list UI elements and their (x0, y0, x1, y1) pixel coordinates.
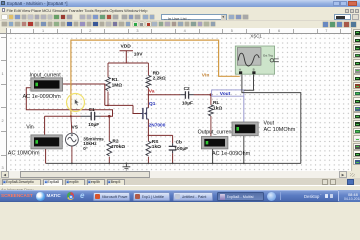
toolbar row 1 (0, 14, 360, 21)
capacitor C1 (45, 107, 101, 128)
resistor RD (146, 63, 166, 95)
svg-text:2.2kΩ: 2.2kΩ (153, 76, 166, 82)
ground (123, 163, 131, 171)
svg-text:VDD: VDD (121, 44, 132, 50)
wire ground rail (46, 162, 301, 164)
multimeter Input_current (23, 72, 63, 100)
wire scope A- ground loop (242, 74, 301, 163)
svg-text:Vin: Vin (26, 125, 34, 131)
taskbar button: powerpoint (93, 192, 130, 201)
svg-text:10µF: 10µF (182, 101, 193, 107)
svg-text:Ext Trig: Ext Trig (263, 53, 273, 57)
horizontal scrollbar (1, 171, 347, 178)
schematic canvas (7, 34, 351, 172)
multimeter Vout (232, 121, 296, 136)
svg-text:C1: C1 (89, 107, 95, 113)
source VS (66, 116, 105, 163)
svg-text:10µF: 10µF (88, 122, 99, 128)
cursor (75, 99, 80, 106)
svg-text:Vout: Vout (264, 121, 275, 127)
resistor RL (208, 94, 222, 137)
svg-text:VS: VS (72, 125, 79, 131)
cursor halo (67, 94, 85, 112)
svg-text:Vin: Vin (202, 72, 210, 78)
transistor Q1 (133, 95, 166, 136)
svg-text:470kΩ: 470kΩ (111, 144, 126, 150)
svg-text:1kΩ: 1kΩ (152, 144, 161, 150)
instruments toolbar (right dock) (351, 28, 360, 178)
svg-text:Cb: Cb (176, 139, 182, 145)
svg-text:100µF: 100µF (174, 146, 188, 152)
wire source node (148, 134, 172, 136)
wire ammeter- to C1 (26, 88, 112, 117)
svg-text:XSC1: XSC1 (250, 33, 262, 38)
svg-text:AC 1e-009Ohm: AC 1e-009Ohm (23, 94, 62, 100)
svg-text:R1: R1 (112, 77, 118, 83)
multimeter Output_current (198, 130, 251, 158)
svg-text:A: A (239, 68, 241, 72)
svg-text:Va: Va (149, 89, 155, 95)
resistor R1 (106, 63, 123, 105)
wire Va to C2 (148, 94, 180, 96)
svg-text:Q1: Q1 (149, 101, 156, 107)
svg-text:Vout: Vout (220, 91, 231, 97)
taskbar button: multisim active (217, 192, 264, 201)
wire scope B to Vout (244, 74, 254, 90)
svg-text:AC 10MOhm: AC 10MOhm (264, 127, 296, 133)
resistor R2 (107, 115, 125, 163)
capacitor Cb (169, 135, 188, 163)
svg-text:C2: C2 (184, 86, 190, 92)
title bar (0, 0, 360, 7)
wire Vin meter bottom (45, 149, 47, 163)
tab bar (0, 178, 360, 185)
chrome icon (67, 192, 75, 200)
right combo (334, 14, 351, 20)
svg-text:1kΩ: 1kΩ (213, 106, 222, 112)
taskbar button: exp1 (133, 192, 170, 201)
svg-text:B: B (253, 68, 255, 72)
svg-text:0°: 0° (83, 146, 88, 151)
svg-text:Output_current: Output_current (198, 130, 234, 136)
power VDD (120, 44, 144, 63)
svg-text:10V: 10V (134, 51, 143, 57)
wire top rail (108, 62, 148, 64)
toolbar row 2 (0, 21, 360, 29)
wire output meter drop (212, 149, 214, 164)
ruler corner (0, 28, 7, 34)
oscilloscope XSC1 (235, 33, 278, 74)
top ruler (7, 28, 351, 34)
svg-text:RL: RL (213, 100, 219, 106)
tray (338, 190, 360, 202)
round icon (267, 192, 276, 201)
screencast-o-matic overlay (1, 193, 33, 198)
svg-text:2N7000: 2N7000 (149, 123, 166, 129)
svg-text:R2: R2 (112, 139, 118, 145)
svg-text:1MΩ: 1MΩ (112, 83, 123, 89)
resistor RS (146, 135, 161, 163)
IE icon (80, 191, 84, 200)
svg-text:RD: RD (153, 70, 160, 76)
capacitor C2 (182, 86, 211, 107)
wire Vout net to meter (lavender) (243, 96, 245, 122)
taskbar button: paint (173, 192, 213, 201)
menu bar (0, 7, 360, 14)
left ruler (0, 34, 7, 172)
status bar (0, 185, 360, 190)
wire ammeter+ to gate (63, 84, 105, 105)
multimeter Vin (8, 125, 63, 157)
svg-text:AC 1e-009Ohm: AC 1e-009Ohm (212, 151, 251, 157)
wire Vin net orange (71, 40, 240, 116)
wire to Vin meter (44, 116, 46, 135)
taskbar (0, 190, 360, 202)
In Use List combo (161, 14, 227, 20)
wire Vout meter drop (243, 123, 245, 164)
svg-text:AC 10MOhm: AC 10MOhm (8, 151, 40, 157)
node Vout box (212, 90, 244, 97)
desktop toolbar (280, 192, 281, 200)
wire gate (105, 104, 133, 106)
